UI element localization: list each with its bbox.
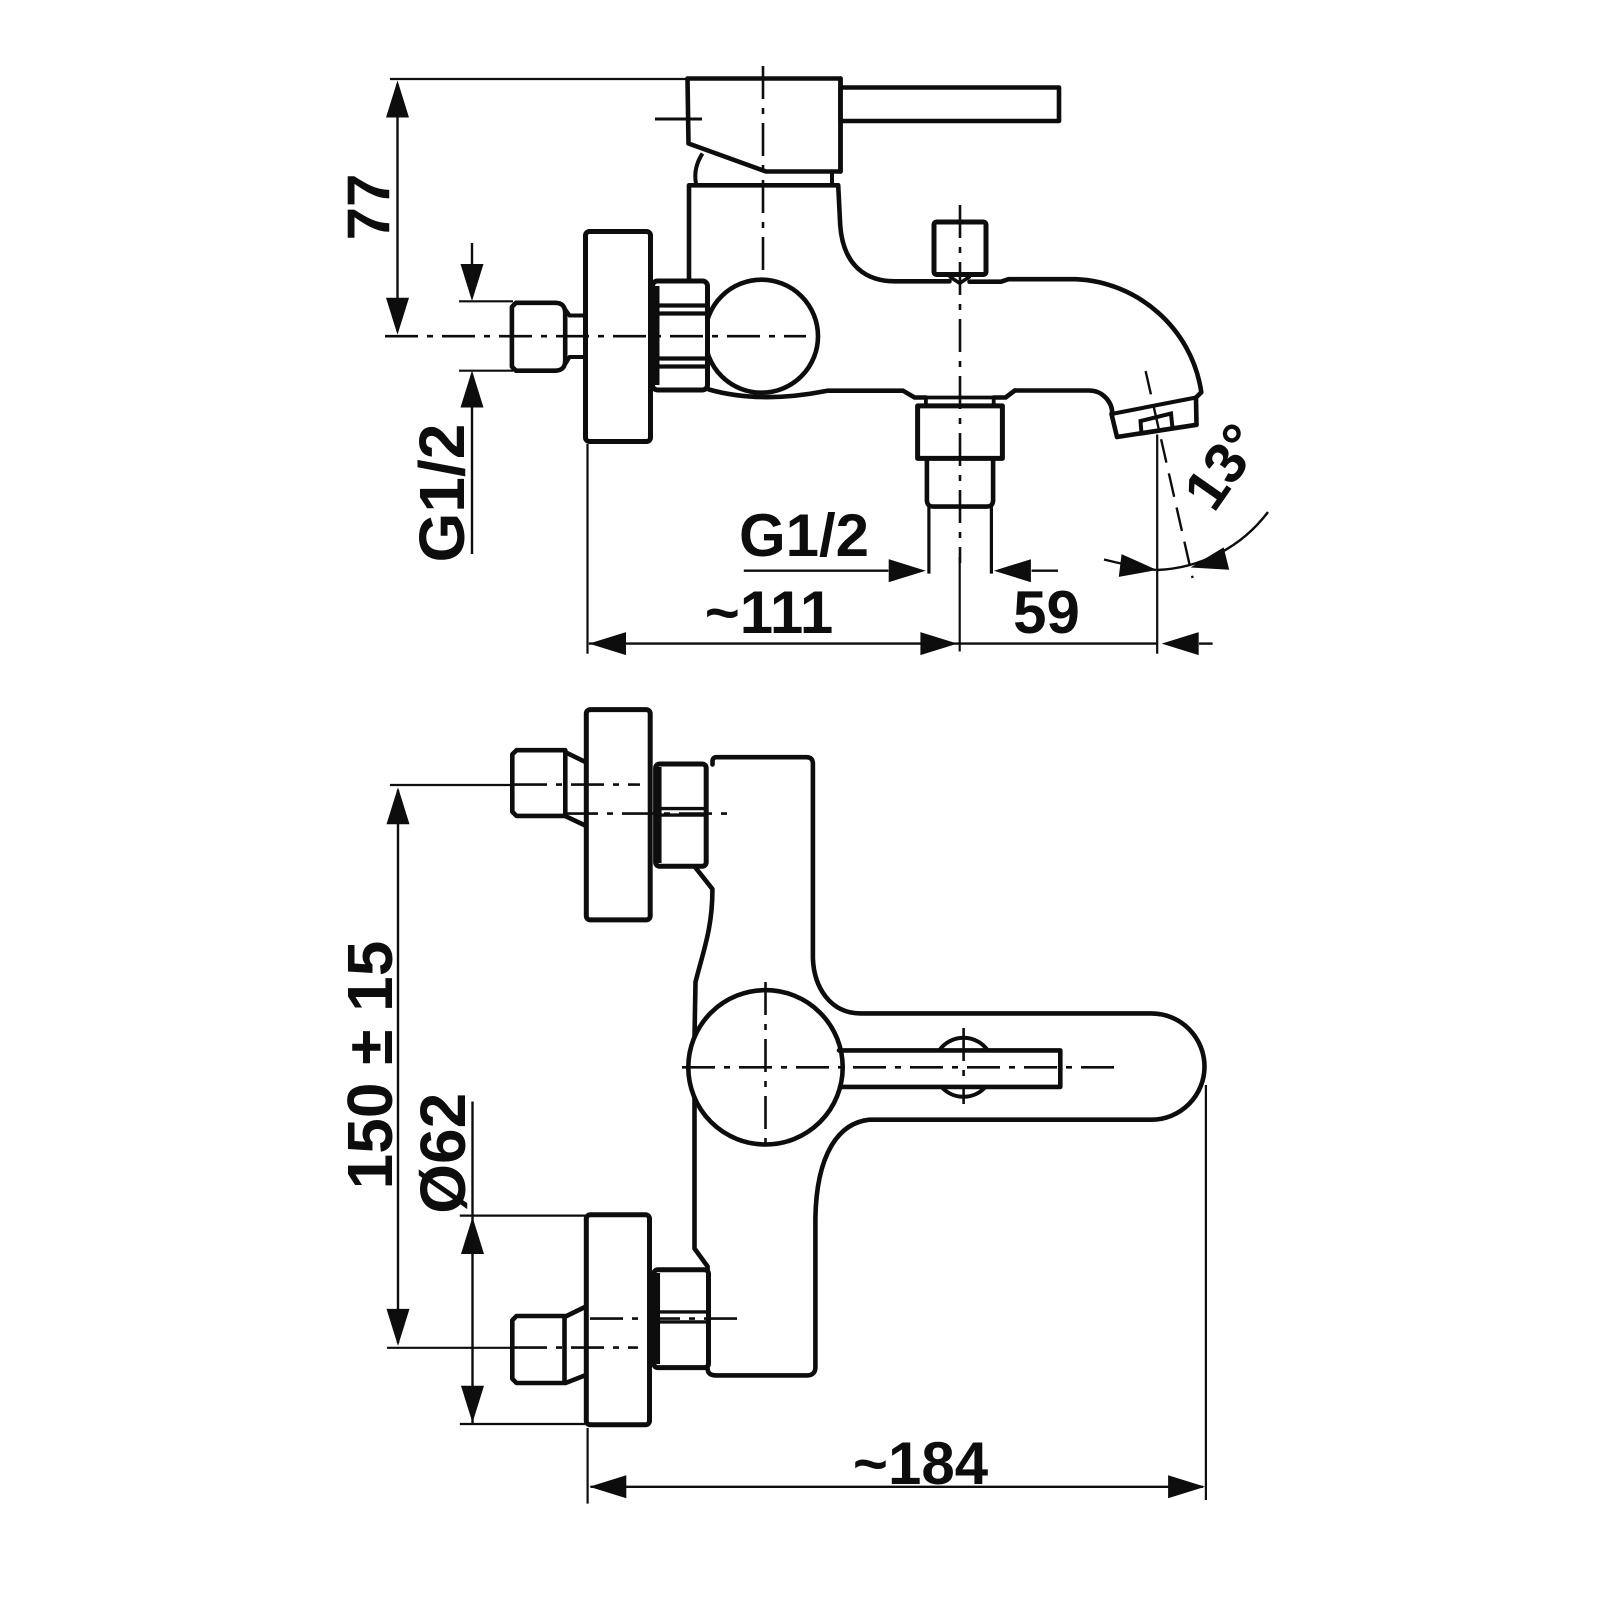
svg-text:Ø62: Ø62 xyxy=(407,1093,479,1214)
svg-text:G1/2: G1/2 xyxy=(406,424,478,563)
svg-text:G1/2: G1/2 xyxy=(739,502,869,569)
svg-text:~111: ~111 xyxy=(705,579,834,646)
svg-text:77: 77 xyxy=(335,174,402,241)
svg-text:~184: ~184 xyxy=(853,1430,989,1497)
svg-text:150 ± 15: 150 ± 15 xyxy=(334,941,406,1190)
svg-text:59: 59 xyxy=(1013,579,1080,646)
